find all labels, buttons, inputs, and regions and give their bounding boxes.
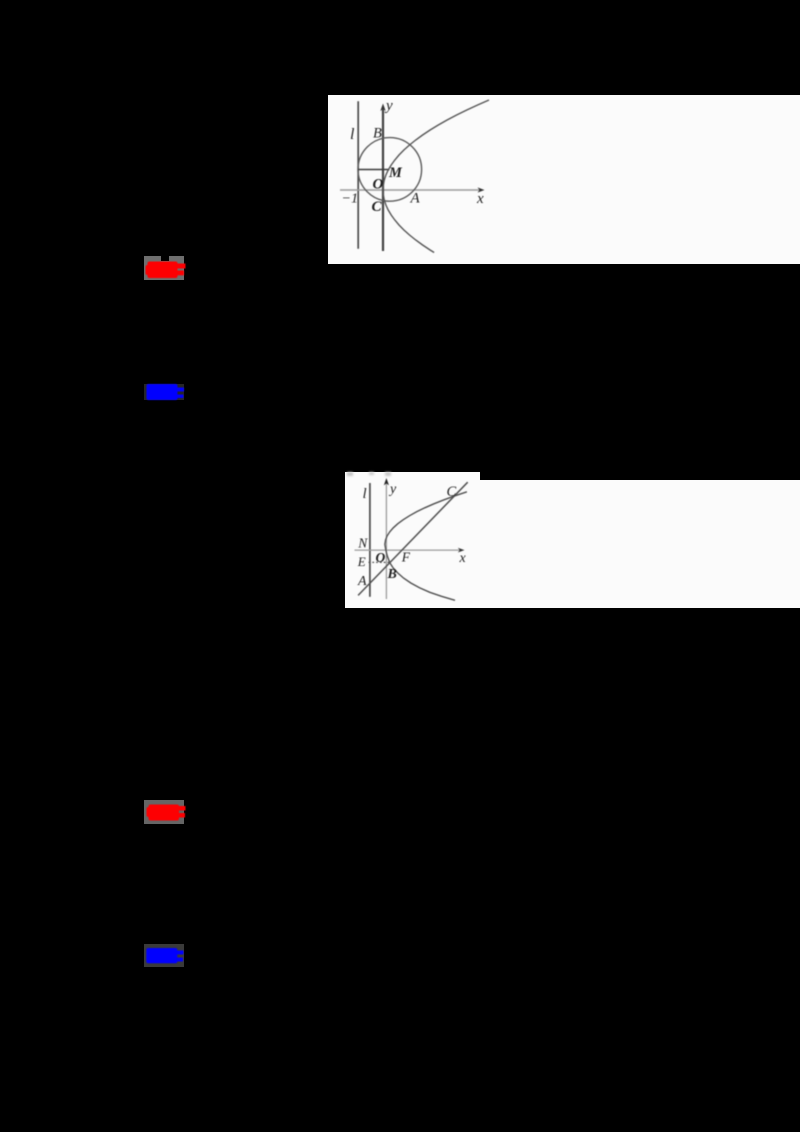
top-edge smudges on figure 2 bbox=[347, 472, 353, 476]
svg-text:A: A bbox=[357, 574, 367, 589]
x-axis arrow bbox=[478, 187, 485, 192]
svg-text:y: y bbox=[384, 98, 393, 114]
svg-text:M: M bbox=[388, 165, 403, 181]
figure 2 blank strip to right bbox=[480, 480, 800, 608]
svg-text:C: C bbox=[446, 484, 456, 500]
svg-text:y: y bbox=[388, 482, 397, 497]
svg-text:N: N bbox=[357, 535, 368, 550]
radius segment from l to M bbox=[358, 169, 389, 171]
blue tag 1 bbox=[144, 384, 184, 401]
svg-text:C: C bbox=[372, 199, 383, 215]
svg-text:B: B bbox=[373, 126, 382, 142]
y-axis arrow bbox=[380, 104, 385, 112]
y-axis bbox=[382, 107, 384, 251]
figure 1 drawing bbox=[328, 95, 800, 264]
directrix line l bbox=[357, 101, 359, 249]
svg-text:E: E bbox=[357, 554, 366, 569]
svg-text:O: O bbox=[373, 177, 384, 193]
parabola bbox=[385, 492, 467, 601]
y-axis arrow bbox=[384, 478, 389, 485]
red tag 2 bbox=[144, 800, 184, 824]
svg-text:x: x bbox=[476, 191, 484, 207]
x-axis bbox=[354, 549, 462, 551]
red tag 1 bbox=[144, 256, 184, 280]
svg-text:l: l bbox=[350, 126, 355, 143]
x-axis arrow bbox=[458, 548, 465, 553]
svg-text:l: l bbox=[362, 486, 366, 502]
directrix line l bbox=[369, 483, 371, 597]
figure 2 drawing bbox=[345, 472, 480, 608]
circle M bbox=[358, 138, 422, 202]
blue tag 2 bbox=[144, 944, 184, 968]
svg-text:B: B bbox=[386, 567, 396, 582]
figure 2 white panel (image part) bbox=[345, 472, 480, 608]
svg-text:A: A bbox=[410, 191, 421, 207]
dotted segment E to B bbox=[368, 561, 389, 563]
svg-text:x: x bbox=[458, 551, 466, 566]
parabola bbox=[383, 100, 489, 253]
x-axis bbox=[340, 189, 482, 191]
y-axis bbox=[385, 483, 387, 599]
chord line A-B-F-C bbox=[358, 482, 468, 595]
svg-text:−1: −1 bbox=[342, 192, 358, 207]
svg-text:O: O bbox=[375, 550, 385, 565]
svg-text:F: F bbox=[401, 549, 411, 564]
figure 1 white panel bbox=[328, 95, 800, 264]
